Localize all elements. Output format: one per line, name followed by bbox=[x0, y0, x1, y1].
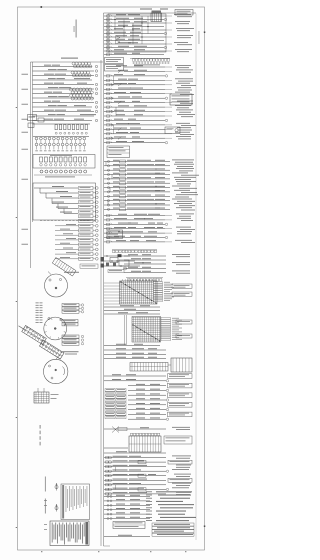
net outline box top section bbox=[108, 14, 166, 52]
zone number marks bottom border bbox=[41, 551, 42, 552]
label strip right of C3 bbox=[63, 350, 79, 353]
terminal strip lower bbox=[126, 277, 163, 279]
wire row H7 bbox=[104, 484, 166, 486]
small connector grid component bbox=[34, 392, 49, 403]
wire row F8 bbox=[128, 409, 166, 411]
matrix pin box column 2 bbox=[161, 318, 171, 320]
wire row C3 bbox=[104, 223, 165, 225]
crossing wires X bbox=[112, 427, 119, 433]
round connector view C3 bbox=[44, 359, 68, 383]
wire row T2 bbox=[104, 19, 164, 21]
wire row F1 bbox=[104, 375, 166, 377]
terminal circle row bbox=[40, 170, 43, 173]
wire row T5 bbox=[104, 29, 166, 31]
wire row C2 bbox=[104, 219, 165, 221]
label box at 80,266 bbox=[80, 264, 98, 268]
heater component block bbox=[129, 436, 161, 452]
wire row A10 bbox=[104, 106, 165, 108]
left relay box group bbox=[28, 115, 37, 121]
round connector view C2 bbox=[44, 317, 67, 340]
wire row F6 bbox=[128, 399, 166, 401]
matrix labels right 1 bbox=[172, 284, 192, 288]
relay box right bbox=[119, 260, 129, 266]
switch bank inner circles bbox=[40, 164, 43, 167]
connector pin cluster B bbox=[71, 71, 74, 74]
dark component small bbox=[118, 254, 122, 257]
wire row A4 bbox=[104, 79, 165, 81]
wire row A8 bbox=[104, 97, 165, 99]
wire row J3 bbox=[104, 504, 150, 506]
left main bus wires bbox=[30, 62, 32, 268]
legend table lower dark bbox=[50, 521, 89, 546]
wiring matrix fan 2 bbox=[132, 317, 161, 343]
wire row A16 bbox=[104, 133, 165, 135]
wire rows section D bbox=[124, 255, 166, 257]
wire row A9 bbox=[104, 102, 165, 104]
wire row C5 bbox=[104, 232, 165, 234]
label box column lower right of C2 bbox=[62, 335, 79, 338]
small dark squares pair bbox=[106, 263, 109, 267]
wire row A2 bbox=[124, 71, 165, 73]
wire rows upper-left with terminal circles bbox=[33, 66, 93, 68]
terminal strip row top bbox=[130, 57, 170, 59]
wire row J6 bbox=[104, 518, 150, 520]
wire row T12 bbox=[104, 54, 164, 56]
title label box top right bbox=[175, 10, 193, 16]
dial symbol lower with leader bbox=[55, 506, 58, 509]
fusible link box left pair bbox=[101, 257, 105, 262]
wire row A18 bbox=[104, 142, 165, 144]
bottom label boxes right bbox=[152, 523, 194, 526]
vertical title text top-left bbox=[76, 20, 77, 38]
wire row C4 bbox=[104, 228, 165, 230]
wire row A7 bbox=[104, 93, 165, 95]
vertical label text upper dial bbox=[45, 477, 46, 492]
vertical label text lower dial bbox=[45, 499, 46, 514]
wire row C7 bbox=[104, 241, 165, 243]
left margin row label texts bbox=[22, 73, 29, 76]
slanted pin table lower bbox=[39, 340, 64, 359]
wire row B8 bbox=[104, 191, 170, 193]
small table mid S5 bbox=[107, 230, 123, 239]
zone tick right border upper bbox=[204, 32, 206, 33]
fan2 junction dots bbox=[133, 325, 134, 326]
top content frame line bbox=[104, 12, 197, 14]
wire row F5 bbox=[128, 394, 166, 396]
wire row B1 bbox=[104, 161, 170, 163]
terminal strip mid bbox=[112, 249, 157, 251]
wire row J5 bbox=[104, 513, 150, 515]
wire row B11 bbox=[104, 204, 170, 206]
wire row B7 bbox=[104, 187, 170, 189]
relay block right R1 bbox=[170, 94, 192, 105]
fan1 junction dots bbox=[121, 282, 122, 283]
relay box mid bbox=[110, 258, 118, 263]
wire row B10 bbox=[104, 200, 170, 202]
wire row A14 bbox=[104, 124, 165, 126]
wire row T4 bbox=[104, 26, 164, 28]
wire row H5 bbox=[104, 475, 166, 477]
wire row A6 bbox=[104, 88, 165, 90]
wire row B6 bbox=[104, 182, 170, 184]
inner right frame line bbox=[195, 14, 197, 541]
caption text above left block bbox=[61, 58, 78, 59]
pin pair rows bbox=[35, 137, 38, 140]
wire row H6 bbox=[104, 479, 166, 481]
wire row H4 bbox=[104, 470, 166, 472]
legend table upper bbox=[61, 484, 90, 520]
switch row boxes bbox=[40, 157, 43, 162]
wire row H9 bbox=[104, 493, 166, 495]
rows below fan2 bbox=[104, 345, 160, 347]
amplifier triangle symbols bbox=[116, 36, 121, 40]
tiny ref marks column bbox=[44, 499, 47, 502]
heater block top pin strip bbox=[131, 433, 133, 435]
wire row H3 bbox=[104, 466, 166, 468]
switch bank frame box bbox=[33, 155, 95, 169]
matrix labels right 2 bbox=[176, 320, 192, 324]
connector pin cluster A bbox=[72, 62, 75, 65]
wire row J2 bbox=[104, 500, 150, 502]
wire row J4 bbox=[104, 509, 150, 511]
slanted connector above tables bbox=[52, 258, 76, 277]
wire row F9 bbox=[128, 413, 166, 415]
wire row A3 bbox=[104, 75, 165, 77]
net junction dots bbox=[114, 19, 115, 20]
wire row G1 bbox=[104, 428, 166, 430]
bottom frame join bbox=[104, 545, 111, 547]
center divider bus lines bbox=[100, 60, 102, 546]
slanted pin table upper bbox=[22, 325, 47, 344]
bottom wire row final bbox=[104, 536, 150, 538]
bottom connector boxes row 1 bbox=[113, 522, 145, 529]
wire row A1 bbox=[124, 66, 165, 68]
switch slash symbols section A bbox=[118, 70, 122, 73]
wire row B12 bbox=[104, 208, 170, 210]
fuse list stack bbox=[105, 389, 115, 392]
wire row T6 bbox=[104, 33, 164, 35]
fan1 top terminal bumps bbox=[122, 280, 123, 281]
wire rows E bbox=[104, 349, 166, 351]
fuse row boxes bbox=[33, 123, 91, 125]
junction label box bbox=[108, 270, 124, 273]
small table S3 bbox=[107, 146, 130, 158]
wire row H1 bbox=[104, 457, 166, 459]
connector block CN-T bbox=[152, 11, 162, 13]
wire row C1 bbox=[104, 215, 165, 217]
leader line C3 bbox=[56, 356, 59, 360]
wire row F10 bbox=[128, 418, 166, 420]
connector box right bbox=[171, 358, 192, 372]
junction dots S6 bbox=[106, 255, 107, 256]
wire row T9 bbox=[104, 43, 166, 45]
sheet ref text top bbox=[140, 9, 152, 10]
round connector view C1 bbox=[45, 274, 68, 297]
wire row G2 bbox=[104, 447, 128, 449]
right margin vertical text bbox=[198, 31, 201, 44]
label rows right of C1 bbox=[62, 304, 79, 307]
label text for C1 bbox=[64, 271, 79, 274]
stacked label column bottom right bbox=[156, 491, 192, 492]
pin number text column left of C1-C2 bbox=[36, 302, 39, 305]
junction network wires bbox=[104, 255, 130, 257]
component box with symbol R2 bbox=[165, 127, 180, 134]
wire row A13 bbox=[104, 119, 165, 121]
wire row B2 bbox=[104, 165, 170, 167]
wire row A15 bbox=[104, 128, 165, 130]
zone tick right border lower bbox=[204, 526, 206, 527]
zone tick top border bbox=[41, 6, 43, 8]
vertical jog ties section A bbox=[113, 76, 115, 85]
connector pin cluster C bbox=[69, 88, 72, 91]
terminal circle junction bbox=[124, 267, 127, 270]
stepped wire group lower-left bbox=[34, 187, 78, 189]
wire row G3 bbox=[104, 452, 166, 454]
slanted table leader labels bbox=[18, 326, 24, 330]
bus-side label boxes pair bbox=[105, 58, 124, 64]
wire row T8 bbox=[104, 40, 164, 42]
wire row F4 bbox=[128, 389, 166, 391]
connector bar strip bbox=[130, 363, 168, 372]
wire row T10 bbox=[104, 47, 164, 49]
label rows right of C2 bbox=[62, 320, 78, 323]
vertical foldout text bbox=[40, 425, 41, 429]
vertical net tie lines top section bbox=[147, 16, 149, 34]
wire row A12 bbox=[104, 115, 165, 117]
wire row T3 bbox=[104, 22, 166, 24]
wire row F7 bbox=[128, 404, 166, 406]
wire row H8 bbox=[104, 488, 166, 490]
matrix pin box column 1 bbox=[154, 282, 163, 284]
label box column with terminals lower-left bbox=[79, 186, 94, 189]
row below fan1 bbox=[104, 306, 160, 308]
wire row C6 bbox=[104, 237, 165, 239]
dial symbol upper with leader bbox=[55, 485, 58, 488]
wire row F3 bbox=[128, 385, 166, 387]
label box right of heater bbox=[164, 436, 192, 444]
wire row A11 bbox=[104, 111, 165, 113]
wire row A17 bbox=[104, 137, 165, 139]
wire row J1 bbox=[104, 496, 150, 498]
dashed splice line bbox=[40, 220, 95, 222]
wire row F2 bbox=[104, 380, 166, 382]
bus pair left of fan 2 bbox=[124, 315, 126, 345]
bus stubs left of fan 1 bbox=[104, 282, 121, 284]
wire row B9 bbox=[104, 195, 170, 197]
wire harness frame box bbox=[33, 183, 96, 220]
wire row T7 bbox=[104, 36, 166, 38]
zone letter marks left border bbox=[16, 107, 17, 108]
wiring matrix fan 1 bbox=[120, 281, 158, 304]
wire row B5 bbox=[104, 178, 170, 180]
wire row T1 bbox=[104, 15, 166, 17]
wire row B3 bbox=[104, 169, 170, 171]
drawing border frame bbox=[18, 7, 205, 550]
wire row H2 bbox=[104, 461, 166, 463]
wire row B4 bbox=[104, 174, 170, 176]
wire row T11 bbox=[104, 50, 166, 52]
wire row A5 bbox=[104, 84, 165, 86]
